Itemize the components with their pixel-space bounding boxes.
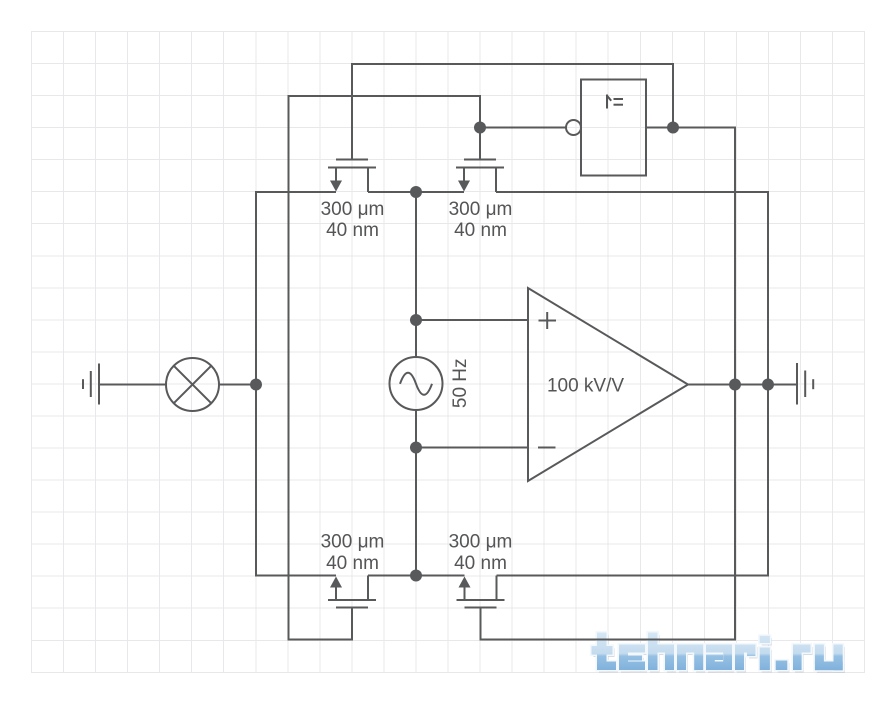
wire bottom mid run xyxy=(368,575,465,577)
wire bottom right run to rail D xyxy=(497,385,769,576)
node G junction dot xyxy=(474,122,486,134)
node O1 junction dot xyxy=(729,379,741,391)
node L junction dot xyxy=(250,379,262,391)
label M3 value xyxy=(321,532,385,575)
svg-text:300 μm: 300 μm xyxy=(321,532,385,553)
wire gate net A: TL gate lead, top run, down to node A xyxy=(352,64,673,160)
svg-text:300 μm: 300 μm xyxy=(449,532,513,553)
node Bm junction dot xyxy=(410,570,422,582)
voltage source V1 xyxy=(390,357,443,410)
transistor M1 (top-left, 300 μm / 40 nm) xyxy=(328,160,376,193)
ground GND2 (right, rotated) xyxy=(797,363,813,405)
svg-text:300 μm: 300 μm xyxy=(449,199,513,220)
node O2 junction dot xyxy=(762,379,774,391)
transistor M4 (bottom-right, 300 μm / 40 nm) xyxy=(457,576,505,608)
transistor M3 (bottom-left, 300 μm / 40 nm) xyxy=(328,576,376,608)
svg-text:40 nm: 40 nm xyxy=(454,553,507,574)
svg-text:40 nm: 40 nm xyxy=(454,220,507,241)
svg-text:300 μm: 300 μm xyxy=(321,199,385,220)
op-amp U1 xyxy=(528,288,688,481)
node N junction dot xyxy=(410,442,422,454)
node A junction dot xyxy=(667,122,679,134)
node T junction dot xyxy=(410,186,422,198)
svg-text:40 nm: 40 nm xyxy=(326,220,379,241)
wire left rail with top and bottom runs xyxy=(256,192,336,576)
label M1 value xyxy=(321,199,385,241)
wire ground to lamp xyxy=(99,384,166,386)
node P junction dot xyxy=(410,314,422,326)
label M4 value xyxy=(449,532,513,575)
wire node G to XNOR bubble xyxy=(480,127,566,129)
wire source rail lower xyxy=(415,410,417,576)
wire XNOR output to node A xyxy=(646,127,673,129)
ground GND1 (left, rotated) xyxy=(83,364,99,405)
gate U2 (XNOR =1, mirrored) xyxy=(566,80,646,176)
svg-text:100 kV/V: 100 kV/V xyxy=(547,376,624,397)
wire op-amp - input xyxy=(416,447,528,449)
wire source rail upper xyxy=(415,192,417,357)
wire lamp to node L xyxy=(219,384,256,386)
label M2 value xyxy=(449,199,513,241)
wire top mid run xyxy=(368,191,464,193)
wire op-amp output xyxy=(688,384,797,386)
lamp LA1 xyxy=(166,358,219,411)
wire node A to rail C, bottom run, M4 gate lead xyxy=(481,128,736,640)
wire top right run to rail D xyxy=(496,192,768,385)
watermark tehnari.ru xyxy=(592,633,845,673)
svg-text:40 nm: 40 nm xyxy=(326,553,379,574)
transistor M2 (top-right, 300 μm / 40 nm) xyxy=(456,160,504,193)
wire op-amp + input xyxy=(416,319,528,321)
wire gate net B: M3 gate lead, bottom run, left rail B, top run, M2 gate lead xyxy=(289,96,481,640)
svg-text:50 Hz: 50 Hz xyxy=(450,358,471,408)
label U2 mirrored =1 xyxy=(607,95,623,109)
